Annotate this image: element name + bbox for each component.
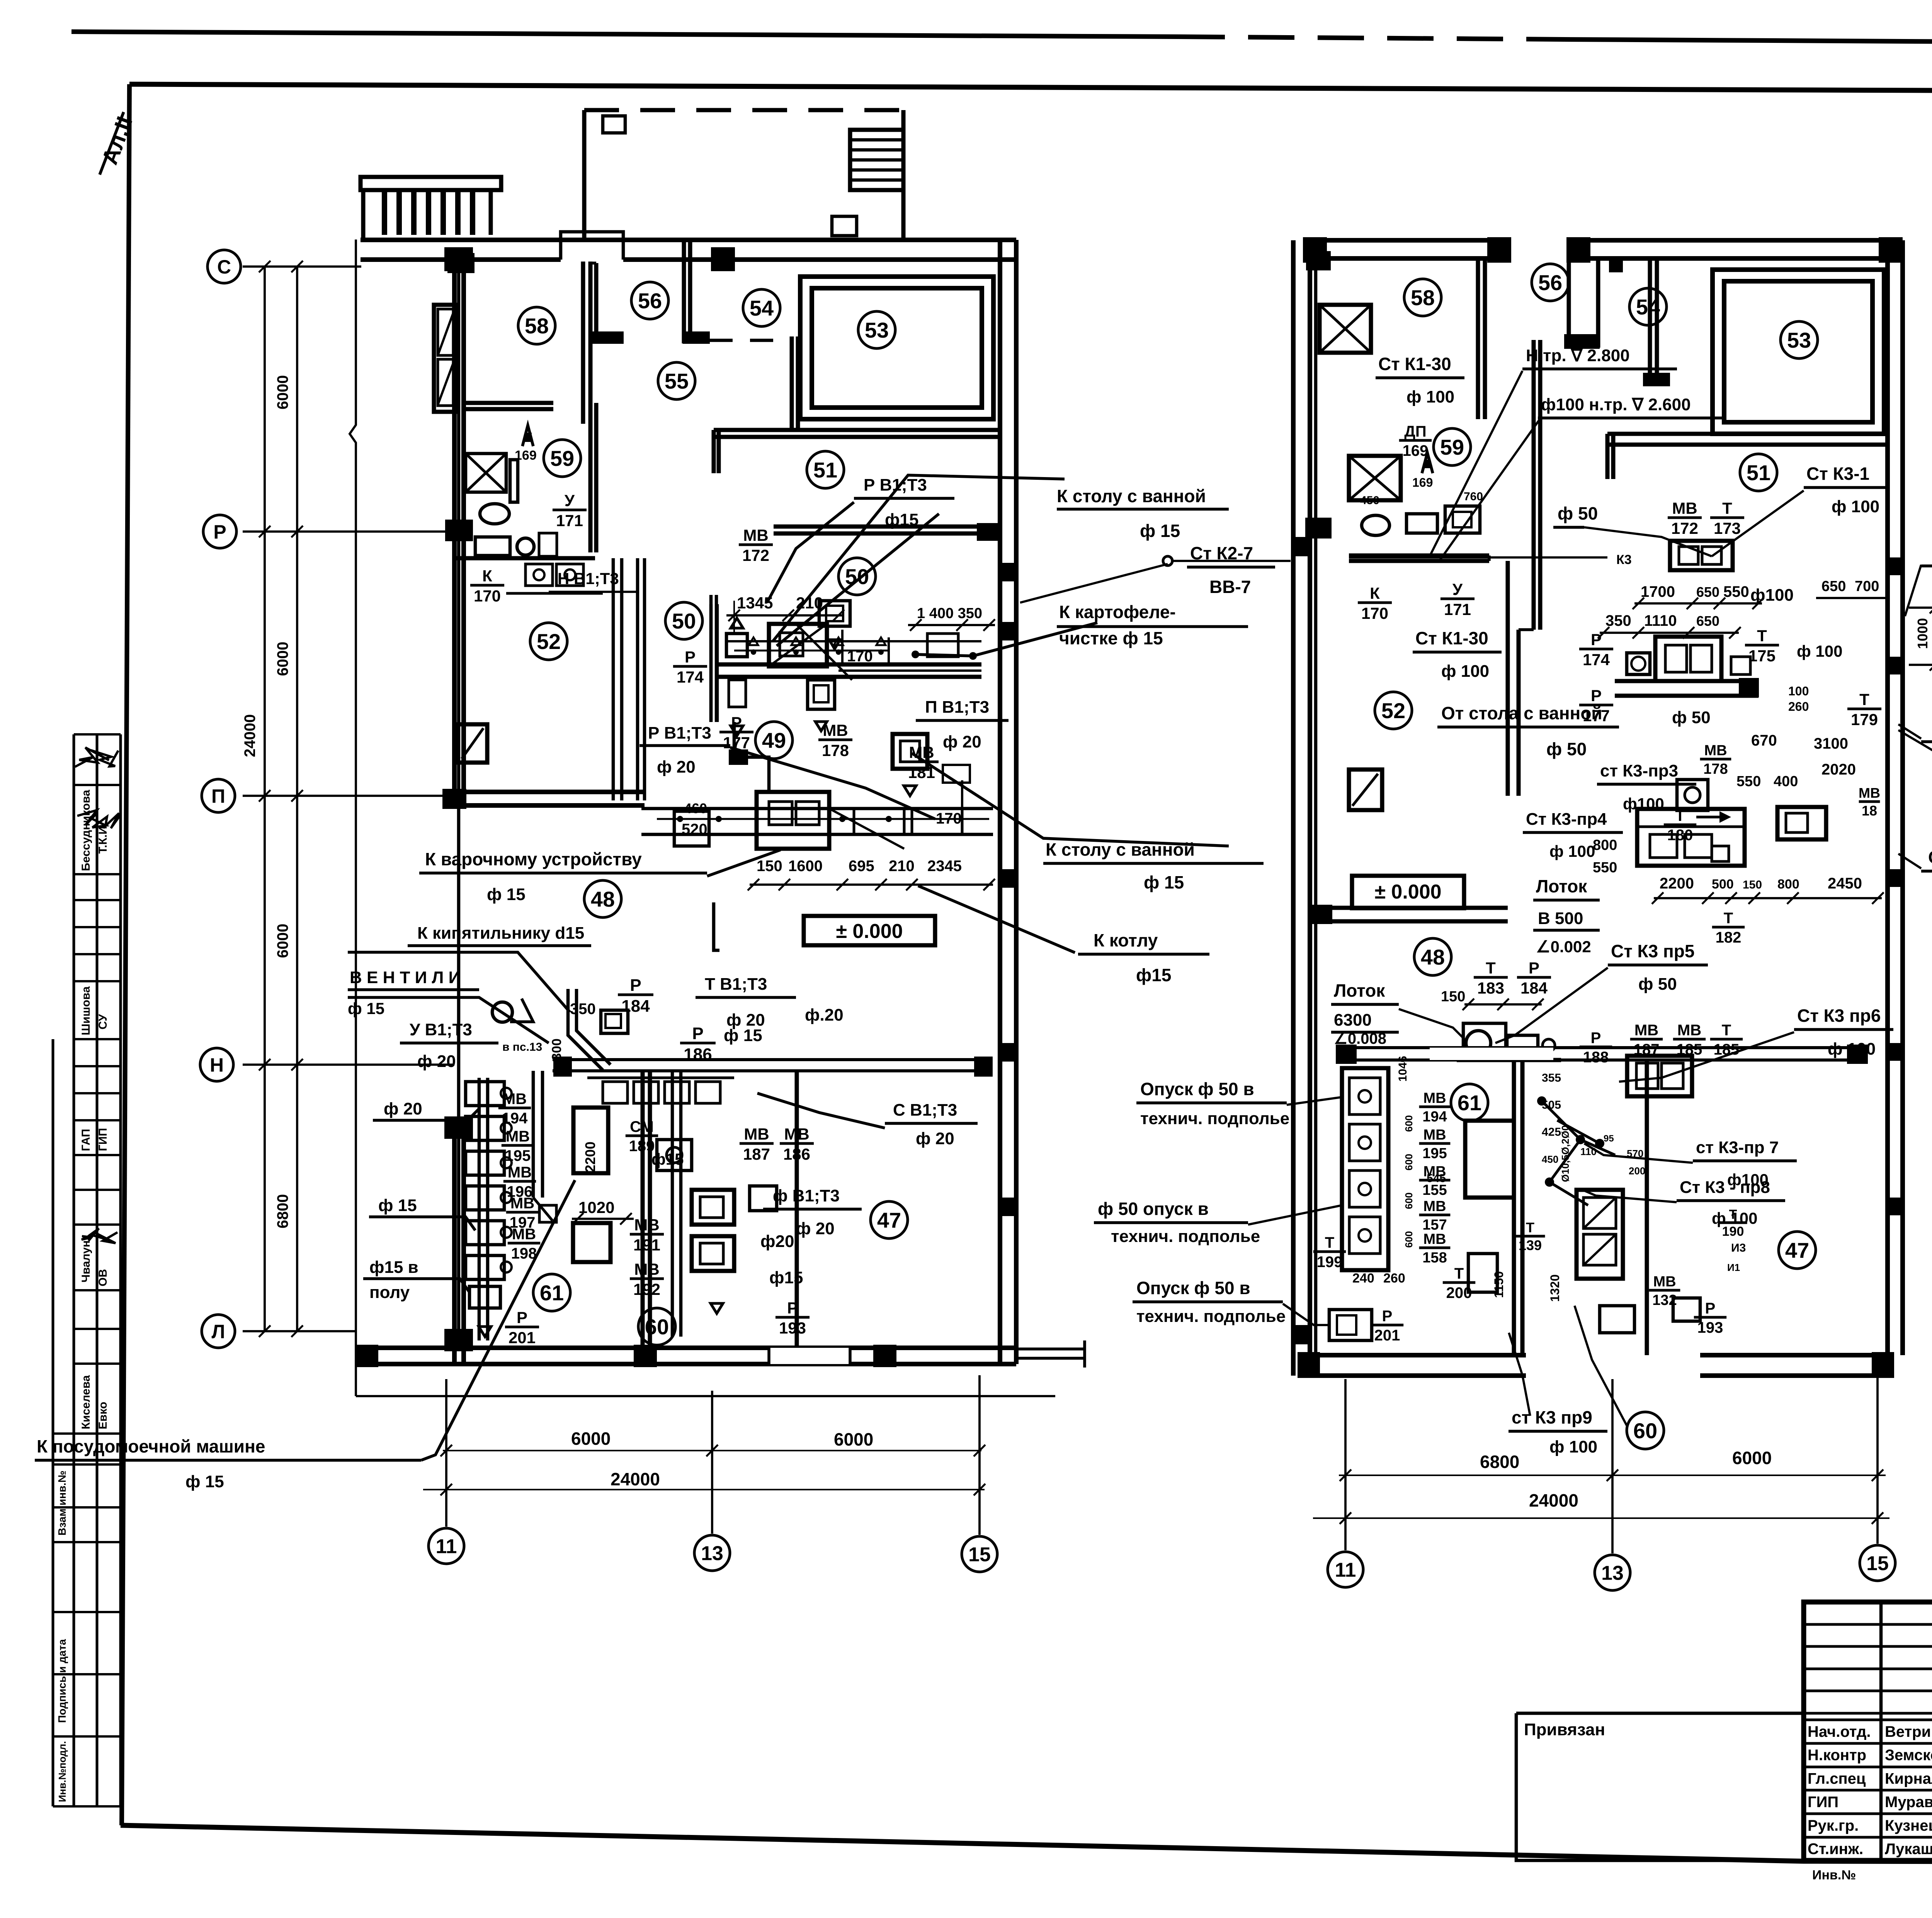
grid circle 13 — [694, 1535, 730, 1571]
svg-text:15: 15 — [1866, 1553, 1889, 1575]
svg-text:24000: 24000 — [611, 1469, 660, 1489]
svg-text:6800: 6800 — [1480, 1452, 1519, 1472]
svg-text:МВ: МВ — [634, 1216, 659, 1234]
svg-text:Т: Т — [1722, 499, 1732, 517]
label МВ/181 — [905, 743, 939, 781]
room 56 east wall a — [682, 240, 686, 343]
label Ст К3-пр2 fixture cluster — [1677, 780, 1708, 810]
svg-text:Р: Р — [685, 648, 696, 666]
label Н.тр 2.800 — [1522, 346, 1677, 369]
svg-text:600: 600 — [1403, 1154, 1415, 1171]
left plan west wall outer — [452, 262, 457, 796]
svg-text:ф 20: ф 20 — [943, 732, 981, 751]
label Т/190 — [1719, 1207, 1747, 1239]
svg-text:МВ: МВ — [1423, 1198, 1446, 1215]
svg-text:ф 15: ф 15 — [487, 885, 526, 904]
room tag 53 right — [1781, 321, 1818, 358]
label Ст К3 пр5 — [1608, 941, 1708, 994]
room 54 east wall a — [790, 336, 794, 430]
svg-text:Лоток: Лоток — [1334, 980, 1385, 1001]
svg-text:169: 169 — [1403, 442, 1429, 459]
svg-text:К: К — [1370, 584, 1380, 602]
svg-text:194: 194 — [502, 1110, 528, 1127]
svg-text:110: 110 — [1580, 1146, 1597, 1157]
svg-text:Р: Р — [1591, 630, 1602, 649]
svg-text:520: 520 — [682, 821, 707, 838]
portico pier — [832, 216, 857, 236]
svg-text:210: 210 — [796, 594, 823, 612]
svg-text:240: 240 — [1352, 1271, 1374, 1286]
room tag 58 right — [1404, 279, 1441, 316]
svg-text:ф 50 опуск в: ф 50 опуск в — [1098, 1199, 1209, 1219]
svg-text:В Е Н Т И Л И: В Е Н Т И Л И — [350, 968, 461, 987]
svg-text:2200: 2200 — [582, 1142, 598, 1172]
svg-text:Ст К3 пр6: Ст К3 пр6 — [1797, 1006, 1881, 1026]
room 54 east wall b — [796, 336, 800, 430]
fixture p201 right — [1329, 1310, 1372, 1340]
svg-text:182: 182 — [1716, 929, 1742, 946]
equipment row room 49 — [641, 792, 993, 849]
leader СтК3-1 — [1712, 491, 1804, 556]
svg-text:Взам.инв.№: Взам.инв.№ — [56, 1471, 68, 1536]
column — [1566, 237, 1590, 263]
room tag 60 — [638, 1308, 675, 1345]
svg-text:179: 179 — [1851, 710, 1878, 729]
svg-text:П: П — [211, 785, 225, 807]
svg-text:ф 20: ф 20 — [417, 1052, 456, 1071]
svg-text:550: 550 — [1736, 773, 1761, 790]
portico left wall — [582, 110, 587, 240]
svg-text:170: 170 — [1361, 604, 1388, 622]
svg-text:201: 201 — [509, 1328, 536, 1347]
room tag 50 b — [665, 602, 702, 639]
room tag 59 right — [1434, 428, 1471, 465]
label Опуск ф50 в 1 — [1136, 1079, 1289, 1128]
svg-text:6000: 6000 — [274, 375, 291, 409]
label Р/177 — [719, 714, 753, 752]
svg-text:Р В1;Т3: Р В1;Т3 — [864, 476, 927, 494]
wall flange — [590, 331, 624, 344]
svg-text:260: 260 — [1383, 1271, 1405, 1286]
svg-text:181: 181 — [908, 763, 935, 781]
signature squiggle — [75, 747, 118, 767]
leader к котлу — [918, 886, 1075, 953]
label Ст К1-30 2 — [1413, 628, 1502, 681]
svg-text:Р: Р — [1591, 1030, 1601, 1046]
top edge line right — [1565, 39, 1932, 45]
svg-text:ф 50: ф 50 — [1638, 975, 1677, 994]
left plan pavement bottom line — [356, 1395, 1055, 1397]
leader Р В1Т3 49 — [730, 747, 935, 819]
flange — [1564, 334, 1600, 349]
svg-text:6000: 6000 — [274, 642, 291, 676]
svg-text:505: 505 — [1542, 1099, 1561, 1111]
room 53 inner box right plan — [1713, 270, 1884, 434]
svg-text:Ст К1-30: Ст К1-30 — [1415, 628, 1488, 648]
east wall riser boxes right — [1889, 557, 1902, 1215]
west wall lower block — [452, 1120, 457, 1364]
vent symbol A — [522, 425, 533, 446]
svg-text:171: 171 — [1444, 600, 1471, 618]
label Ст К3-пр7 — [1693, 1138, 1797, 1189]
door opening marks south wall — [769, 1348, 850, 1364]
label К/170 — [1358, 584, 1392, 622]
grid circle П — [202, 779, 235, 812]
dim line 48 — [750, 883, 993, 886]
label Т/175 — [1745, 627, 1779, 665]
svg-text:650: 650 — [1696, 584, 1719, 600]
leader пр9 — [1509, 1333, 1530, 1416]
leader 60 right — [1575, 1306, 1627, 1425]
label МВ/187 — [1630, 1022, 1663, 1058]
svg-text:ф15 в: ф15 в — [369, 1258, 418, 1277]
top edge line left — [71, 32, 1179, 37]
svg-text:6000: 6000 — [274, 924, 291, 958]
svg-text:МВ: МВ — [743, 526, 768, 544]
column — [355, 1345, 378, 1367]
lower block top wall right plan — [1336, 1046, 1862, 1049]
svg-text:Р: Р — [517, 1308, 527, 1327]
label Р/201 — [1371, 1308, 1403, 1344]
svg-text:ф100: ф100 — [1750, 586, 1794, 605]
svg-text:Лоток: Лоток — [1536, 876, 1587, 896]
svg-text:460: 460 — [684, 800, 707, 816]
east wall right plan — [1885, 240, 1890, 1355]
label Ст К3-пр3 — [1597, 761, 1696, 813]
svg-text:Л: Л — [211, 1321, 225, 1342]
leader лоток — [1399, 1009, 1464, 1039]
left plan east wall outer — [1014, 240, 1019, 1364]
привязан box — [1516, 1713, 1804, 1860]
riser pipe right plan west — [1314, 258, 1318, 1352]
label МВ/186 — [780, 1125, 814, 1163]
grid circle 11 right — [1328, 1552, 1363, 1587]
svg-text:695: 695 — [849, 858, 874, 875]
grid circle 13 right — [1595, 1555, 1630, 1590]
svg-text:Р В1;Т3: Р В1;Т3 — [648, 724, 711, 742]
left plan exterior pavement line — [350, 240, 356, 1396]
label Т/179 — [1847, 690, 1881, 729]
left plan north wall outer — [361, 238, 1016, 242]
svg-text:Р: Р — [1382, 1308, 1393, 1325]
svg-text:193: 193 — [1697, 1319, 1723, 1336]
svg-text:185: 185 — [1677, 1041, 1702, 1058]
svg-text:1150: 1150 — [1492, 1271, 1506, 1298]
room 52 east walls right plan — [1506, 561, 1510, 796]
svg-text:ф 100: ф 100 — [1712, 1209, 1758, 1227]
pipe junction box — [447, 253, 474, 273]
svg-text:95: 95 — [1604, 1133, 1614, 1144]
±0.000 box right plan — [1352, 876, 1464, 908]
svg-text:У В1;Т3: У В1;Т3 — [410, 1020, 472, 1039]
label Т/139 — [1515, 1220, 1545, 1253]
room 59 fixtures — [466, 454, 557, 556]
svg-text:∠0.008: ∠0.008 — [1334, 1030, 1386, 1047]
svg-text:1345: 1345 — [737, 594, 773, 612]
pipes web room 60 right plan — [1537, 1096, 1615, 1205]
lower block north wall inner — [553, 1069, 989, 1072]
svg-text:К кипятильнику d15: К кипятильнику d15 — [417, 924, 584, 943]
room 51 counter — [1615, 679, 1759, 683]
room 52 east wall a — [612, 558, 615, 800]
svg-text:Р: Р — [731, 714, 742, 732]
svg-text:ф.20: ф.20 — [805, 1006, 844, 1024]
leaders нтр — [1430, 371, 1522, 556]
svg-text:600: 600 — [1403, 1193, 1415, 1209]
svg-text:Ст К3 - пр8: Ст К3 - пр8 — [1680, 1178, 1770, 1197]
svg-text:1320: 1320 — [1548, 1274, 1562, 1302]
room 59 east wall — [588, 403, 593, 552]
room tag 58 left — [518, 307, 555, 344]
wall return — [712, 430, 716, 473]
svg-text:ф15: ф15 — [885, 510, 918, 529]
svg-text:технич. подполье: технич. подполье — [1136, 1307, 1286, 1326]
room 56 east wall b — [688, 240, 692, 331]
svg-text:Т: Т — [1757, 627, 1767, 645]
svg-text:± 0.000: ± 0.000 — [836, 920, 903, 943]
svg-text:48: 48 — [1421, 945, 1445, 969]
svg-text:полу: полу — [369, 1283, 410, 1302]
room 58 east wall — [1476, 258, 1480, 419]
label Р/184 — [1517, 959, 1551, 997]
leader к столу с ванной lower — [912, 753, 1229, 846]
room tag 59 left — [544, 440, 581, 477]
svg-text:Подпись и дата: Подпись и дата — [56, 1639, 68, 1723]
grid circle 11 — [429, 1528, 464, 1564]
svg-text:ф 100: ф 100 — [1406, 387, 1454, 406]
svg-text:Кирналова: Кирналова — [1885, 1770, 1932, 1787]
svg-text:150: 150 — [1441, 989, 1465, 1005]
svg-text:1 400 350: 1 400 350 — [917, 605, 982, 622]
svg-text:технич. подполье: технич. подполье — [1111, 1227, 1260, 1246]
svg-text:ф В1;Т3: ф В1;Т3 — [773, 1186, 840, 1205]
column — [974, 1057, 993, 1077]
svg-text:Р: Р — [1705, 1300, 1716, 1317]
svg-text:11: 11 — [1335, 1559, 1356, 1582]
svg-text:ф15: ф15 — [651, 1150, 684, 1168]
svg-text:СМ: СМ — [630, 1118, 654, 1135]
room tag 53 left — [858, 311, 895, 348]
svg-text:Гл.спец: Гл.спец — [1808, 1770, 1866, 1787]
svg-text:И1: И1 — [1727, 1262, 1740, 1273]
svg-text:ф 100: ф 100 — [1549, 842, 1595, 860]
label К/170 — [470, 567, 504, 605]
leader junction dots — [912, 651, 919, 658]
label Т/185 — [1710, 1022, 1743, 1058]
svg-text:Т: Т — [1526, 1220, 1534, 1235]
svg-text:450: 450 — [1542, 1154, 1558, 1165]
title block grid — [1804, 1602, 1932, 1860]
svg-text:ф 20: ф 20 — [657, 758, 696, 776]
grid line Р — [243, 530, 454, 533]
svg-text:в пс.13: в пс.13 — [502, 1041, 542, 1053]
svg-text:СУ: СУ — [97, 1014, 109, 1030]
svg-text:ф 15: ф 15 — [185, 1472, 224, 1491]
svg-text:Н: Н — [210, 1054, 224, 1076]
svg-text:193: 193 — [779, 1319, 806, 1337]
svg-text:55: 55 — [665, 369, 689, 393]
canopy lines right of plan — [1016, 1347, 1085, 1351]
svg-text:Т В1;Т3: Т В1;Т3 — [705, 975, 767, 994]
svg-text:60: 60 — [645, 1315, 669, 1339]
label Р/193 — [776, 1299, 810, 1337]
trough detail room 48 right — [0, 0, 0, 0]
window room 52 right plan — [1349, 770, 1382, 810]
right plan north wall a — [1303, 238, 1511, 243]
svg-text:ГАП: ГАП — [80, 1129, 92, 1151]
svg-text:И3: И3 — [1731, 1242, 1746, 1254]
entrance 56 side walls — [1567, 258, 1571, 348]
right plan west wall riser boxes — [1294, 537, 1308, 1344]
svg-text:60: 60 — [1633, 1419, 1657, 1443]
room 51 north wall inner — [714, 435, 1000, 439]
equipment room 51 right plan — [1627, 541, 1750, 681]
svg-text:198: 198 — [511, 1245, 537, 1262]
svg-text:400: 400 — [1774, 773, 1798, 790]
fixture 51 P — [819, 601, 850, 649]
svg-text:13: 13 — [701, 1543, 723, 1565]
svg-text:ф100: ф100 — [1623, 795, 1664, 813]
svg-text:Т: Т — [1454, 1265, 1464, 1282]
right plan west wall — [1291, 240, 1296, 1376]
frame left — [122, 84, 129, 1825]
svg-text:Ст.инж.: Ст.инж. — [1808, 1841, 1863, 1858]
label Р/188 — [1580, 1030, 1612, 1066]
label МВ/155 — [1419, 1164, 1451, 1198]
fixture cluster room 60 right plan — [1577, 1056, 1700, 1333]
column — [1872, 1352, 1894, 1374]
room 52 east wall b — [620, 558, 624, 800]
svg-text:ф 100: ф 100 — [1828, 1040, 1876, 1058]
room tag 49 — [755, 722, 793, 759]
svg-text:53: 53 — [865, 318, 889, 342]
grid line Н — [243, 1063, 454, 1066]
svg-text:С В1;Т3: С В1;Т3 — [893, 1101, 957, 1120]
sink column room 61 right plan — [1342, 1068, 1388, 1270]
dimension line — [1313, 1512, 1889, 1524]
svg-text:157: 157 — [1422, 1217, 1447, 1233]
svg-text:170: 170 — [936, 810, 962, 827]
label Ст К3-пр2 right outside — [1921, 718, 1932, 771]
wardrobe fixture room 58 — [434, 305, 457, 412]
svg-text:56: 56 — [1538, 270, 1562, 295]
svg-text:Ст К3-пр4: Ст К3-пр4 — [1526, 810, 1607, 829]
svg-text:Кузнецова: Кузнецова — [1885, 1817, 1932, 1834]
svg-text:Инв.№: Инв.№ — [1812, 1868, 1856, 1882]
svg-text:К столу с ванной: К столу с ванной — [1057, 486, 1206, 506]
svg-text:1000: 1000 — [1915, 618, 1930, 649]
svg-text:350: 350 — [570, 1001, 596, 1018]
dimension line — [440, 1445, 985, 1456]
room 56 wall a — [588, 263, 593, 343]
svg-text:ф 15: ф 15 — [348, 999, 384, 1018]
pipes room 50 texture — [726, 630, 981, 666]
room 53 chamber walls — [800, 277, 993, 419]
portico hatch block — [850, 130, 903, 190]
wall return — [1605, 434, 1610, 479]
svg-text:186: 186 — [783, 1145, 810, 1163]
P fixture room 49 — [893, 734, 927, 796]
right plan north wall b — [1566, 238, 1903, 243]
svg-text:МВ: МВ — [503, 1091, 527, 1108]
svg-text:Н.тр. ∇ 2.800: Н.тр. ∇ 2.800 — [1526, 346, 1630, 365]
svg-text:650: 650 — [1696, 613, 1719, 629]
svg-text:Р: Р — [692, 1024, 703, 1043]
label МВ/194 — [1419, 1090, 1451, 1125]
svg-text:61: 61 — [540, 1281, 564, 1305]
frame bottom — [121, 1825, 1932, 1863]
equipment room 50 — [711, 604, 981, 736]
svg-text:184: 184 — [1520, 979, 1548, 997]
label Т/180 — [1664, 807, 1696, 844]
svg-text:МВ: МВ — [506, 1128, 530, 1145]
partition 58/59 right plan — [1349, 554, 1489, 558]
svg-text:1700: 1700 — [1641, 583, 1675, 600]
svg-text:МВ: МВ — [1634, 1022, 1658, 1039]
svg-text:К столу с ванной: К столу с ванной — [1046, 839, 1195, 860]
column — [1336, 1045, 1357, 1064]
room tag 61 — [533, 1274, 570, 1311]
pipes room 49 texture — [657, 765, 989, 822]
label МВ/172 — [1668, 499, 1702, 537]
svg-text:Ст К3-1: Ст К3-1 — [1806, 464, 1869, 484]
svg-text:МВ: МВ — [1423, 1127, 1446, 1143]
wall 61/60 b — [648, 1071, 652, 1364]
leader пр8 — [1582, 1190, 1677, 1202]
svg-text:53: 53 — [1787, 328, 1811, 352]
dashed partition 54 — [709, 339, 792, 342]
title block outer — [1804, 1602, 1932, 1860]
svg-text:Чвалун: Чвалун — [80, 1240, 92, 1283]
room 50 west partial wall — [709, 595, 713, 722]
fixtures room 60 — [657, 1071, 777, 1337]
room 56 wall b — [594, 263, 599, 331]
svg-text:2450: 2450 — [1828, 875, 1862, 892]
svg-text:150: 150 — [757, 858, 782, 875]
leader опуск2 — [1248, 1205, 1342, 1225]
machine room 61 2200 — [573, 1108, 608, 1173]
left stamp table — [53, 734, 121, 1806]
wall 61/60 a — [641, 1071, 645, 1364]
svg-text:У: У — [1452, 580, 1463, 598]
svg-text:ф20: ф20 — [760, 1232, 794, 1251]
grid circle С — [207, 250, 241, 283]
svg-text:ф 100: ф 100 — [1549, 1437, 1597, 1456]
label У/171 — [1440, 580, 1475, 618]
svg-text:186: 186 — [684, 1045, 712, 1064]
svg-text:Т: Т — [1859, 690, 1869, 708]
room tag 60 right — [1627, 1412, 1664, 1449]
svg-text:199: 199 — [1317, 1254, 1343, 1271]
leader lines room 50 to К столу — [773, 475, 1065, 641]
dishwasher pipes room 61 — [533, 1071, 556, 1222]
svg-text:158: 158 — [1422, 1250, 1447, 1266]
label Ст К3 пр6 — [1794, 1006, 1893, 1058]
svg-text:Р: Р — [630, 976, 641, 995]
svg-text:300: 300 — [549, 1038, 564, 1060]
label МВ/187 — [740, 1125, 774, 1163]
svg-text:ГИП: ГИП — [1808, 1794, 1838, 1811]
grid line С — [243, 265, 361, 268]
svg-text:Бессудникова: Бессудникова — [80, 790, 92, 871]
svg-text:ф 100: ф 100 — [1797, 642, 1843, 660]
svg-text:Н.контр: Н.контр — [1808, 1747, 1866, 1764]
svg-text:Т: Т — [1325, 1234, 1334, 1251]
svg-text:189: 189 — [629, 1138, 655, 1155]
vertical dimension lines left — [264, 267, 266, 1331]
svg-text:200: 200 — [1629, 1165, 1645, 1177]
window detail room 52 — [458, 724, 487, 763]
